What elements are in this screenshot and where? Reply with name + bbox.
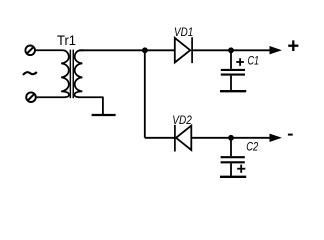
diode VD2 xyxy=(175,125,191,152)
arrow positive output xyxy=(270,46,282,54)
capacitor C2 xyxy=(221,138,245,176)
node junction dot top-left xyxy=(142,47,148,53)
terminal X1 (top input) xyxy=(25,46,35,56)
AC tilde symbol xyxy=(23,72,37,75)
terminal X2 (bottom input) xyxy=(26,92,36,102)
node junction dot C1 xyxy=(228,47,234,53)
wire VD1 cathode to output xyxy=(193,49,273,51)
ground (common) under transformer xyxy=(92,114,116,116)
wire negative rail to VD2 cathode xyxy=(145,137,176,139)
diode VD1 xyxy=(175,37,192,63)
transformer core xyxy=(70,50,73,99)
capacitor C1 xyxy=(221,50,245,90)
wire VD2 anode to output xyxy=(191,137,272,139)
wire secondary bottom to ground xyxy=(102,97,104,115)
arrow negative output xyxy=(270,134,282,142)
svg-text:VD1: VD1 xyxy=(174,25,193,39)
label + polarity C2 xyxy=(237,165,245,173)
svg-text:Tr1: Tr1 xyxy=(57,32,76,48)
ground (common) under C1 xyxy=(220,90,246,92)
wire branch down to negative rail xyxy=(144,50,146,138)
label + output xyxy=(288,40,298,51)
svg-text:C2: C2 xyxy=(246,140,258,154)
wire top rail (secondary to VD1 anode) xyxy=(79,49,174,51)
label - output xyxy=(288,134,293,136)
label + polarity C1 xyxy=(236,58,244,66)
ground (common) under C2 xyxy=(220,176,246,178)
svg-text:C1: C1 xyxy=(248,54,260,68)
transformer Tr1 primary winding (with wires to terminals) xyxy=(35,50,69,97)
transformer Tr1 secondary winding xyxy=(75,50,104,97)
node junction dot C2 xyxy=(228,135,234,141)
